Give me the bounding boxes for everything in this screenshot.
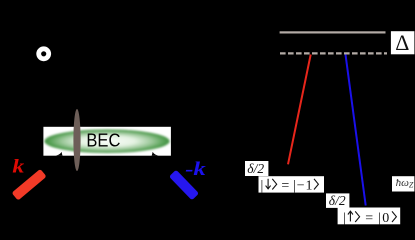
- svg-text:-k: -k: [185, 158, 206, 180]
- svg-text:BEC: BEC: [86, 130, 120, 151]
- svg-text:Δ: Δ: [395, 30, 409, 55]
- svg-text:1: 1: [306, 178, 313, 193]
- label ket down = ket -1: [259, 176, 325, 193]
- svg-text:|: |: [378, 211, 381, 226]
- laser beam -k (blue): [169, 170, 199, 201]
- svg-text:|: |: [261, 178, 264, 193]
- red Raman transition line: [288, 55, 311, 165]
- svg-text:=: =: [281, 178, 289, 193]
- svg-text:−: −: [297, 178, 305, 193]
- virtual level (dashed gray line): [280, 52, 387, 54]
- svg-text:δ/2: δ/2: [329, 193, 346, 208]
- svg-text:δ/2: δ/2: [247, 161, 264, 176]
- label ket up = ket 0: [338, 208, 401, 226]
- blue Raman transition line: [346, 55, 366, 206]
- left curved-arrow tip: [56, 152, 63, 156]
- svg-text:k: k: [12, 156, 24, 177]
- vacuum cell (white box): [43, 127, 170, 156]
- right curved-arrow tip: [152, 152, 159, 156]
- label delta/2 (right): [326, 193, 349, 208]
- detuning label box Delta: [391, 31, 415, 54]
- svg-text:|: |: [343, 211, 346, 226]
- svg-text:0: 0: [382, 211, 389, 226]
- node B (field out of page ring): [39, 49, 49, 59]
- excited level (solid gray line): [280, 31, 386, 33]
- laser beam +k (red): [12, 169, 47, 201]
- label hbar omega_Z: [392, 176, 414, 191]
- BEC cloud (green ellipse): [44, 129, 169, 153]
- lens: [73, 109, 80, 171]
- label delta/2 (left): [245, 161, 268, 176]
- svg-text:|: |: [293, 178, 296, 193]
- svg-text:=: =: [365, 211, 373, 226]
